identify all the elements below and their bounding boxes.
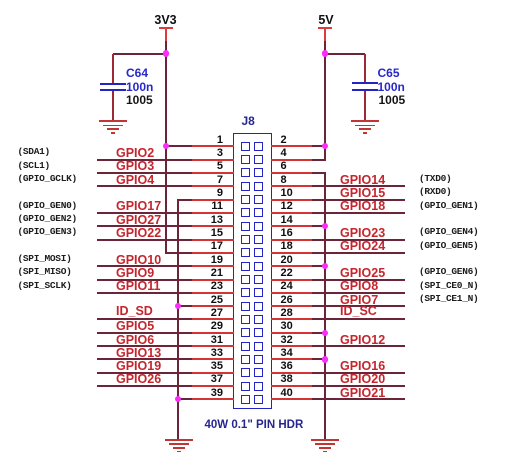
label (GPIO_GEN6) [419,266,478,277]
pin number 9 [193,188,223,199]
label (TXD0) [419,173,451,184]
junction 3V3/C64 tee [163,50,169,56]
power symbol 3V3 bar [159,27,173,29]
junction pin 1 / 3V3 rail [163,143,169,149]
label (RXD0) [419,186,451,197]
wire pin 28 net ID_SC [271,318,312,320]
wire pin 38 net GPIO20 [271,385,312,387]
label (SCL1) [18,160,50,171]
pin number 39 [193,388,223,399]
pin number 32 [281,335,293,346]
net label GPIO3 [116,160,154,172]
wire pin 16 net GPIO23 [271,239,312,241]
wire pin 26 net GPIO7 [271,305,312,307]
junction pin 34 / GND rail [322,356,328,362]
connector J8 description label [205,419,304,431]
net label GPIO26 [116,373,161,385]
wire pin 3 net GPIO2 [97,159,192,161]
wire pin 19 net GPIO10 [97,265,192,267]
net label 5V [311,14,341,26]
wire C64 top lead [112,54,114,84]
net label 3V3 [150,14,181,26]
label (SPI_SCLK) [18,280,72,291]
net label GPIO6 [116,334,154,346]
label (GPIO_GCLK) [18,173,77,184]
label (GPIO_GEN3) [18,226,77,237]
label C64 refdes [126,67,148,80]
pin number 34 [281,348,293,359]
label C65 value 100n [378,81,405,94]
wire pin 20 net GND [271,265,312,267]
junction pin 25 / GND rail [175,303,181,309]
wire C65 top lead [364,54,366,82]
wire pin 23 net GPIO11 [97,292,192,294]
wire pin 30 net GND [271,332,312,334]
net label GPIO17 [116,200,161,212]
junction pin 39 / GND rail [175,396,181,402]
pin number 23 [193,281,223,292]
junction 5V/C65 tee [322,50,328,56]
net label GPIO9 [116,267,154,279]
net label GPIO13 [116,347,161,359]
net label GPIO24 [340,240,385,252]
wire pin 22 net GPIO25 [271,279,312,281]
wire pin 34 net GND [271,358,312,360]
pin number 14 [281,215,293,226]
pin number 25 [193,295,223,306]
label (SDA1) [18,146,50,157]
pin number 28 [281,308,293,319]
pin number 12 [281,201,293,212]
pin number 30 [281,321,293,332]
pin number 4 [281,148,287,159]
wire pin 36 net GPIO16 [271,372,312,374]
label C65 size 1005 [379,94,406,107]
pin number 38 [281,374,293,385]
wire pin 40 net GPIO21 [271,398,312,400]
power symbol 5V bar [318,27,332,29]
net label GPIO8 [340,280,378,292]
wire pin 27 net ID_SD [97,318,192,320]
wire pin 11 net GPIO17 [97,212,192,214]
wire pin 4 net 5V [271,159,312,161]
wire C65 bottom lead [364,91,366,120]
pin number 27 [193,308,223,319]
connector J8 refdes label [242,115,255,127]
wire GND rail right [324,172,326,439]
pin number 7 [193,175,223,186]
label (SPI_CE0_N) [419,280,478,291]
pin number 26 [281,295,293,306]
net label GPIO21 [340,387,385,399]
pin number 22 [281,268,293,279]
ground bottom left [0,0,1,1]
connector J8 body [233,133,273,409]
pin number 13 [193,215,223,226]
pin number 31 [193,335,223,346]
wire pin 10 net GPIO15 [271,199,312,201]
ground bottom right [0,0,1,1]
ground below C64 [0,0,1,1]
ground below C65 [0,0,1,1]
wire pin 15 net GPIO22 [97,239,192,241]
wire pin 8 net GPIO14 [271,185,312,187]
wire pin 24 net GPIO8 [271,292,312,294]
wire pin 39 net GND [178,398,192,400]
wire pin 33 net GPIO13 [97,358,192,360]
pin number 3 [193,148,223,159]
pin number 16 [281,228,293,239]
pin number 19 [193,255,223,266]
wire pin 9 net GND [178,199,192,201]
pin number 40 [281,388,293,399]
net label GPIO23 [340,227,385,239]
capacitor C64 [0,0,1,1]
label (SPI_CE1_N) [419,293,478,304]
wire pin 35 net GPIO19 [97,372,192,374]
wire pin 7 net GPIO4 [97,185,192,187]
pin number 2 [281,135,287,146]
pin number 24 [281,281,293,292]
net label GPIO27 [116,214,161,226]
wire 3V3 rail vertical [165,41,167,254]
pin number 20 [281,255,293,266]
pin number 8 [281,175,287,186]
label (GPIO_GEN1) [419,200,478,211]
net label ID_SD [116,305,153,317]
net label GPIO5 [116,320,154,332]
pin number 10 [281,188,293,199]
wire 3V3 to C64 [113,53,166,55]
net label GPIO14 [340,174,385,186]
wire pin 21 net GPIO9 [97,279,192,281]
label C65 refdes [378,67,400,80]
wire pin 37 net GPIO26 [97,385,192,387]
wire pin 5 net GPIO3 [97,172,192,174]
power symbol 3V3 stub [165,29,167,41]
wire pin 25 net GND [178,305,192,307]
net label GPIO10 [116,254,161,266]
label (GPIO_GEN0) [18,200,77,211]
pin number 29 [193,321,223,332]
pin number 1 [193,135,223,146]
net label GPIO4 [116,174,154,186]
pin number 5 [193,161,223,172]
junction pin 20 / GND rail [322,263,328,269]
power symbol 5V stub [324,29,326,41]
wire pin 14 net GND [271,225,312,227]
junction pin 2 / 5V rail [322,143,328,149]
wire 5V rail vertical [324,41,326,161]
pin number 11 [193,201,223,212]
net label GPIO2 [116,147,154,159]
pin number 37 [193,374,223,385]
wire pin 31 net GPIO6 [97,345,192,347]
net label ID_SC [340,305,377,317]
pin number 15 [193,228,223,239]
label (GPIO_GEN4) [419,226,478,237]
label (SPI_MOSI) [18,253,72,264]
label C64 size 1005 [126,94,153,107]
connector J8 pin pads (40 squares) [0,0,1,1]
net label GPIO7 [340,294,378,306]
wire pin 1 net 3V3 [166,145,192,147]
wire pin 29 net GPIO5 [97,332,192,334]
wire GND rail left [177,199,179,439]
wire pin 32 net GPIO12 [271,345,312,347]
pin number 21 [193,268,223,279]
pin number 18 [281,241,293,252]
wire pin 17 net 3V3 [166,252,192,254]
junction pin 30 / GND rail [322,330,328,336]
wire pin 6 net GND [271,172,312,174]
wire pin 2 net 5V [271,145,312,147]
pin number 33 [193,348,223,359]
wire pin 18 net GPIO24 [271,252,312,254]
wire pin 13 net GPIO27 [97,225,192,227]
wire 5V to C65 [325,53,365,55]
net label GPIO12 [340,334,385,346]
net label GPIO25 [340,267,385,279]
capacitor C65 [0,0,1,1]
junction pin 14 / GND rail [322,223,328,229]
pin number 35 [193,361,223,372]
pin number 17 [193,241,223,252]
wire pin 12 net GPIO18 [271,212,312,214]
label C64 value 100n [126,81,153,94]
label (GPIO_GEN2) [18,213,77,224]
net label GPIO15 [340,187,385,199]
net label GPIO19 [116,360,161,372]
label (SPI_MISO) [18,266,72,277]
net label GPIO20 [340,373,385,385]
label (GPIO_GEN5) [419,240,478,251]
wire C64 bottom lead [112,91,114,120]
net label GPIO16 [340,360,385,372]
net label GPIO11 [116,280,160,292]
net label GPIO22 [116,227,161,239]
pin number 6 [281,161,287,172]
net label GPIO18 [340,200,385,212]
pin number 36 [281,361,293,372]
